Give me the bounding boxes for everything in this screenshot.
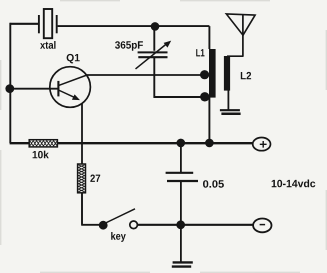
ground (antenna side) — [220, 109, 240, 111]
crystal XTAL body — [44, 9, 52, 38]
label key — [111, 232, 126, 242]
wire: crystal to top junction — [58, 25, 155, 27]
capacitor C2 0.05 bottom plate — [167, 180, 198, 182]
wire: junction to L1 top corner — [155, 26, 209, 49]
label 0.05 — [203, 180, 224, 188]
key switch pole dot — [99, 221, 108, 230]
capacitor C1 365pF variable: bottom plate — [138, 56, 167, 58]
plus terminal — [253, 138, 271, 151]
wire: junction down to variable capacitor — [153, 28, 155, 51]
node: L1 lower tap dot — [200, 92, 209, 101]
capacitor C2 0.05 top plate — [166, 172, 194, 174]
key switch throw circle — [130, 221, 138, 229]
ground (bottom) — [173, 261, 193, 263]
inductor L2 bar — [224, 56, 230, 91]
wire: base wire from left rail to Q1 — [10, 88, 58, 90]
wire: +V rail horizontal — [10, 142, 253, 144]
label 10k — [33, 151, 49, 159]
transistor Q1 emitter diagonal with arrowhead — [58, 90, 77, 99]
transistor Q1 base bar — [57, 81, 59, 97]
wire: bottom junction to ground — [180, 227, 182, 262]
node: rail dot below L1 — [205, 139, 214, 148]
label 10-14vdc — [272, 180, 316, 188]
wire: key to bottom junction — [138, 224, 253, 226]
antenna — [226, 14, 255, 35]
label L2 — [241, 72, 251, 79]
resistor R2 27 body — [78, 164, 86, 193]
wire: L2 to ground — [227, 91, 229, 111]
wire: Q1 emitter down to resistor 27 — [81, 104, 83, 164]
wire: variable cap down then right to L1 lower tap — [153, 58, 201, 98]
label 27 — [90, 175, 100, 182]
wire: top-left horizontal from left rail to crystal — [10, 23, 39, 25]
wire: resistor 27 to key — [81, 193, 99, 225]
label Q1 — [67, 54, 80, 64]
transistor Q1 collector diagonal — [58, 75, 87, 86]
minus terminal — [253, 219, 271, 233]
capacitor C2 0.05: top wire — [180, 145, 182, 172]
label 365pF — [115, 41, 143, 51]
inductor L1 bar — [209, 49, 216, 98]
label L1 — [196, 49, 204, 56]
crystal XTAL right plate — [56, 15, 58, 33]
wire: left vertical rail — [9, 23, 11, 143]
crystal XTAL left plate — [38, 15, 40, 33]
wire: collector to L1 upper tap — [87, 74, 202, 76]
node: base junction dot on left rail — [5, 84, 14, 93]
node: top junction dot — [151, 22, 160, 31]
capacitor C1 arrow — [136, 44, 168, 69]
key switch lever — [105, 209, 136, 224]
capacitor C2 0.05 bottom wire — [180, 182, 182, 222]
node: bottom junction dot — [176, 220, 185, 229]
label xtal — [40, 41, 55, 49]
transistor Q1 circle — [50, 67, 91, 108]
node: rail dot above 0.05 cap — [177, 139, 186, 148]
node: L1 upper tap dot — [200, 70, 209, 79]
resistor R1 10k body — [29, 140, 57, 147]
wire: L1 bottom to rail — [208, 98, 210, 141]
capacitor C1 365pF variable: top plate — [138, 51, 168, 53]
